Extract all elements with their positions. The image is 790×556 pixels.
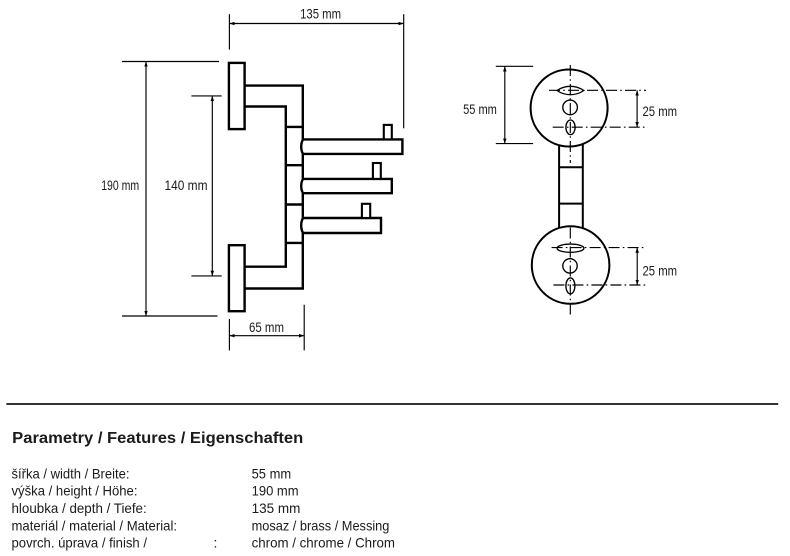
svg-text:hloubka / depth / Tiefe:: hloubka / depth / Tiefe:: [12, 500, 147, 516]
svg-text:chrom / chrome / Chrom: chrom / chrome / Chrom: [252, 534, 395, 550]
svg-text::: :: [214, 534, 218, 550]
svg-text:Parametry / Features / Eigensc: Parametry / Features / Eigenschaften: [12, 430, 303, 447]
svg-text:materiál / material / Material: materiál / material / Material:: [12, 517, 178, 533]
svg-text:140 mm: 140 mm: [165, 177, 208, 193]
svg-text:výška / height / Höhe:: výška / height / Höhe:: [12, 483, 138, 499]
svg-text:mosaz / brass / Messing: mosaz / brass / Messing: [252, 517, 390, 533]
svg-text:šířka / width / Breite:: šířka / width / Breite:: [12, 465, 130, 481]
svg-text:25 mm: 25 mm: [643, 263, 678, 279]
svg-text:190 mm: 190 mm: [101, 177, 139, 193]
svg-text:55 mm: 55 mm: [463, 101, 497, 117]
svg-text:55 mm: 55 mm: [252, 465, 292, 481]
svg-text:135 mm: 135 mm: [300, 6, 341, 22]
svg-text:65 mm: 65 mm: [249, 319, 284, 335]
svg-text:135 mm: 135 mm: [252, 500, 301, 516]
svg-text:190 mm: 190 mm: [252, 483, 299, 499]
svg-text:25 mm: 25 mm: [643, 103, 678, 119]
svg-text:povrch. úprava / finish /: povrch. úprava / finish /: [12, 534, 148, 550]
